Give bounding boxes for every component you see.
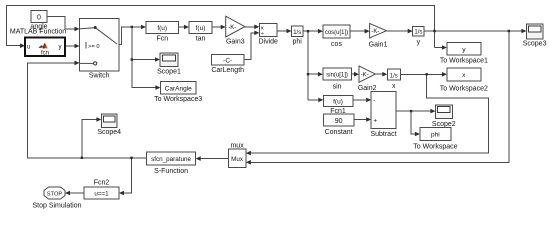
svg-text:Scope1: Scope1 — [157, 69, 181, 76]
arrowhead into Fcn1 — [318, 98, 323, 103]
svg-text:Constant: Constant — [325, 129, 353, 136]
MATLAB Fcn block fcn U1 — [25, 38, 65, 57]
arrowhead into Fcn2 (left) — [119, 191, 124, 196]
svg-text:MATLAB Function: MATLAB Function — [10, 29, 66, 36]
arrowhead into Mux in2 (left) — [246, 160, 251, 165]
svg-text:CarAngle: CarAngle — [165, 85, 192, 92]
svg-text:y: y — [417, 39, 421, 46]
wire Divide to phi integrator — [277, 30, 287, 32]
svg-text:Gain3: Gain3 — [226, 39, 245, 46]
arrowhead into To Workspace2 — [442, 72, 447, 77]
svg-text:phi: phi — [431, 132, 440, 139]
wire Constant to Subtract in2 — [354, 119, 367, 121]
arrowhead into To Workspace1 — [442, 45, 447, 50]
wire Gain3 to Divide in1 — [245, 26, 255, 28]
gain block Gain2 — [359, 66, 375, 82]
subtract block — [371, 92, 396, 129]
wire sfcn out to switch in3 — [28, 63, 147, 158]
scope block Scope1 — [160, 53, 178, 67]
svg-text:To Workspace3: To Workspace3 — [154, 96, 202, 103]
svg-text:>= 0: >= 0 — [88, 44, 100, 50]
svg-text:Scope4: Scope4 — [97, 129, 121, 136]
svg-text:Gain1: Gain1 — [369, 42, 388, 49]
Fcn block f(u) — [146, 22, 179, 34]
arrowhead into Subtract in1 — [366, 98, 371, 103]
arrowhead into sin — [318, 72, 323, 77]
fcn block Fcn2 u==1 — [84, 187, 119, 199]
arrowhead into Gain2 — [354, 72, 359, 77]
junction node y to mux — [508, 30, 510, 32]
tan block f(u) — [189, 22, 212, 34]
arrowhead into switch in1 — [75, 27, 80, 32]
arrowhead into Scope3 — [521, 29, 526, 34]
svg-text:Scope3: Scope3 — [523, 41, 547, 48]
wire integrator y to Scope3 — [424, 30, 522, 32]
svg-text:S-Function: S-Function — [154, 168, 188, 175]
to-workspace block phi — [420, 128, 451, 141]
wire branch to Scope4 — [82, 120, 97, 158]
to-workspace block CarAngle — [160, 82, 196, 94]
svg-text:f(u): f(u) — [333, 99, 343, 106]
wire Mux to S-Function — [200, 158, 228, 160]
gain block Gain3 — [226, 16, 245, 37]
svg-text:STOP: STOP — [47, 191, 63, 197]
svg-text:-: - — [373, 98, 375, 105]
svg-text:y: y — [59, 44, 62, 50]
wire Fcn1 to Subtract in1 — [353, 99, 367, 101]
wire branch to Scope1 — [132, 27, 156, 60]
svg-text:Fcn: Fcn — [156, 36, 168, 43]
svg-text:phi: phi — [293, 39, 303, 46]
scope block Scope2 — [435, 105, 452, 119]
svg-text:cos(u[1]): cos(u[1]) — [325, 30, 348, 36]
wire branch to Fcn1 — [308, 99, 319, 101]
wire branch down from phi node — [307, 31, 309, 100]
divide block — [259, 23, 277, 37]
wire feedback top: y out up and across to fcn input — [7, 5, 435, 47]
arrowhead into integrator y — [408, 29, 413, 34]
svg-text:sin: sin — [333, 84, 342, 91]
s-function block sfcn_paratune — [147, 152, 196, 165]
arrowhead into Scope2 — [430, 109, 435, 114]
svg-text:CarLength: CarLength — [211, 67, 244, 74]
svg-text:÷: ÷ — [261, 31, 264, 37]
wire branch to To Workspace phi — [411, 111, 415, 134]
svg-text:u==1: u==1 — [94, 191, 109, 198]
svg-text:1/s: 1/s — [293, 30, 301, 36]
svg-text:Fcn2: Fcn2 — [94, 179, 110, 186]
wire Subtract to Scope2 — [396, 110, 431, 112]
gain block Gain1 — [370, 23, 387, 38]
svg-text:x: x — [392, 83, 396, 90]
wire branch to sin — [308, 73, 318, 75]
svg-text:-K-: -K- — [228, 25, 236, 31]
scope block Scope3 — [526, 24, 543, 39]
integrator block y 1/s — [413, 26, 425, 36]
arrowhead into Scope4 — [96, 117, 101, 122]
wire branch y down to mux in2 — [250, 31, 508, 162]
wire tan to Gain3 — [212, 26, 221, 28]
arrowhead into To Workspace phi — [415, 132, 420, 137]
arrowhead into Scope1 — [155, 57, 160, 62]
arrowhead into phi integrator — [287, 29, 292, 34]
wire Fcn2 to STOP — [70, 192, 85, 194]
arrowhead into switch in2 — [75, 44, 80, 49]
wire CarLength to Divide in2 — [244, 33, 255, 60]
svg-text:To Workspace: To Workspace — [413, 143, 457, 150]
scope block Scope4 — [101, 114, 117, 127]
svg-text:-K-: -K- — [361, 73, 369, 79]
wire Gain2 to integrator x — [375, 73, 383, 75]
junction node fcn2 branch — [130, 157, 132, 159]
svg-text:fcn: fcn — [41, 51, 49, 57]
svg-text:Divide: Divide — [258, 39, 278, 46]
wire Fcn to tan — [179, 26, 185, 28]
arrowhead into tan — [184, 25, 189, 30]
junction node x branch — [426, 73, 428, 75]
wire phi to cos — [303, 30, 318, 32]
integrator block phi 1/s — [292, 26, 304, 37]
junction node phi branch — [307, 30, 309, 32]
stop block STOP octagon — [44, 187, 65, 199]
arrowhead into CarAngle — [155, 85, 160, 90]
svg-text:0: 0 — [37, 14, 41, 21]
svg-text:sfcn_paratune: sfcn_paratune — [151, 156, 191, 163]
to-workspace block y — [447, 43, 481, 56]
arrowhead into STOP (left) — [65, 191, 70, 196]
junction node switch-out branch — [131, 26, 133, 28]
arrowhead into fcn u — [20, 43, 25, 48]
svg-text:To Workspace1: To Workspace1 — [440, 58, 488, 65]
wire cos to Gain1 — [350, 30, 365, 32]
constant block 90 — [323, 114, 354, 126]
arrowhead into cos — [318, 29, 323, 34]
svg-text:Mux: Mux — [231, 156, 244, 163]
arrowhead into Gain3 — [221, 25, 226, 30]
svg-text:+: + — [373, 117, 377, 124]
svg-text:tan: tan — [196, 36, 206, 43]
svg-text:-K-: -K- — [371, 29, 379, 35]
arrowhead into Divide in2 — [254, 31, 259, 36]
svg-text:Subtract: Subtract — [370, 131, 396, 138]
wire Gain1 to integrator y — [386, 30, 408, 32]
svg-text:cos: cos — [331, 41, 342, 48]
wire branch down to Fcn2 — [124, 158, 132, 193]
svg-text:sin(u[1]): sin(u[1]) — [326, 73, 348, 79]
junction node y feedback — [433, 30, 435, 32]
arrowhead into S-Function (left) — [196, 156, 201, 161]
wire to To Workspace1 — [435, 47, 443, 49]
junction node Scope1 branch — [131, 58, 133, 60]
wire branch x down to mux in1 — [250, 74, 488, 153]
arrowhead into Gain1 — [365, 29, 370, 34]
fcn block cos — [323, 25, 350, 38]
constant block angle value 0 — [31, 11, 47, 23]
MATLAB logo icon — [38, 43, 48, 49]
svg-text:Switch: Switch — [89, 73, 110, 80]
junction node subtract branch — [410, 110, 412, 112]
svg-text:f(u): f(u) — [196, 25, 206, 32]
arrowhead into Fcn — [141, 25, 146, 30]
svg-text:Gain2: Gain2 — [358, 85, 377, 92]
wire switch out to Fcn — [119, 27, 142, 45]
svg-text:Stop Simulation: Stop Simulation — [32, 203, 81, 210]
svg-text:u: u — [27, 44, 30, 50]
svg-text:1/s: 1/s — [390, 73, 398, 79]
svg-text:90: 90 — [335, 118, 343, 125]
arrowhead into Divide in1 — [254, 25, 259, 30]
arrowhead into integrator x — [382, 72, 387, 77]
wire integrator x to To Workspace2 — [400, 73, 442, 75]
arrowhead into Mux in1 (left) — [246, 151, 251, 156]
wire angle const to switch in1 — [47, 16, 75, 29]
constant block CarLength -C- — [212, 55, 244, 65]
fcn block Fcn1 f(u) — [323, 95, 353, 106]
svg-text:To Workspace2: To Workspace2 — [440, 85, 488, 92]
svg-text:1/s: 1/s — [414, 30, 422, 36]
svg-text:mux: mux — [230, 143, 244, 150]
wire fcn y to switch in2 — [65, 45, 75, 47]
to-workspace block x — [447, 68, 481, 81]
mux block — [228, 149, 246, 167]
svg-text:f(u): f(u) — [157, 25, 167, 32]
wire sin to Gain2 — [351, 73, 354, 75]
switch block — [80, 19, 120, 71]
junction node sin branch — [307, 73, 309, 75]
svg-text:-C-: -C- — [223, 57, 232, 64]
arrowhead into switch in3 — [75, 61, 80, 66]
junction node scope4 branch — [81, 157, 83, 159]
arrowhead into Subtract in2 — [366, 117, 371, 122]
integrator block x 1/s — [387, 69, 400, 80]
wire branch to CarAngle — [132, 60, 156, 88]
fcn block sin — [323, 68, 351, 80]
